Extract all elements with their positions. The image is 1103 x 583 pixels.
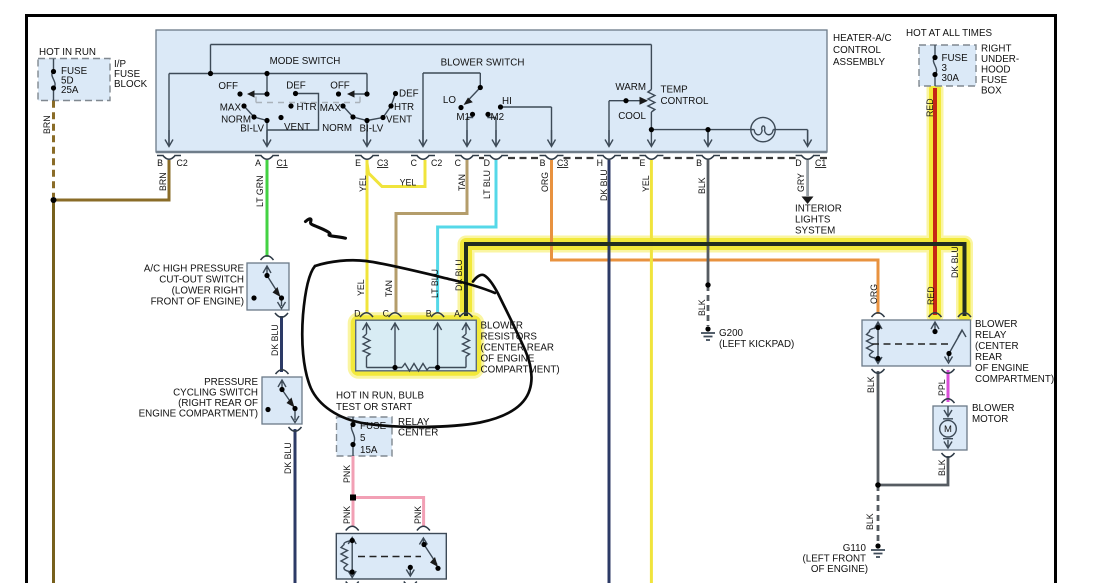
svg-text:BLK: BLK [865, 513, 875, 530]
svg-text:CONTROL: CONTROL [661, 96, 709, 107]
svg-text:G110: G110 [843, 543, 867, 554]
svg-text:DEF: DEF [286, 81, 306, 92]
svg-text:YEL: YEL [356, 279, 366, 296]
svg-text:M: M [944, 424, 952, 435]
svg-text:HOOD: HOOD [981, 65, 1010, 76]
svg-text:30A: 30A [942, 73, 960, 84]
svg-text:B: B [157, 158, 163, 168]
svg-text:E: E [355, 158, 361, 168]
svg-text:INTERIOR: INTERIOR [795, 204, 842, 215]
svg-text:FRONT OF ENGINE): FRONT OF ENGINE) [151, 297, 244, 308]
svg-text:(CENTER REAR: (CENTER REAR [481, 343, 554, 354]
svg-text:COMPARTMENT): COMPARTMENT) [975, 374, 1054, 385]
svg-text:HEATER-A/C: HEATER-A/C [833, 33, 892, 44]
svg-text:COOL: COOL [618, 111, 646, 122]
svg-text:(LEFT KICKPAD): (LEFT KICKPAD) [719, 339, 794, 350]
svg-text:M1: M1 [456, 112, 470, 123]
svg-text:C2: C2 [177, 158, 188, 168]
svg-text:C: C [411, 158, 418, 168]
svg-text:OFF: OFF [330, 81, 350, 92]
svg-text:WARM: WARM [615, 82, 646, 93]
svg-text:15A: 15A [360, 445, 378, 456]
svg-text:CUT-OUT SWITCH: CUT-OUT SWITCH [159, 275, 244, 286]
svg-text:D: D [795, 158, 801, 168]
svg-text:OFF: OFF [218, 81, 238, 92]
svg-text:BI-LV: BI-LV [240, 124, 264, 135]
svg-text:PNK: PNK [413, 506, 423, 524]
svg-text:PRESSURE: PRESSURE [204, 377, 258, 388]
svg-text:TAN: TAN [457, 174, 467, 191]
svg-text:HOT AT ALL TIMES: HOT AT ALL TIMES [906, 28, 992, 39]
svg-text:ENGINE COMPARTMENT): ENGINE COMPARTMENT) [139, 409, 258, 420]
svg-text:NORM: NORM [322, 123, 352, 134]
svg-text:REAR: REAR [975, 352, 1002, 363]
svg-text:COMPARTMENT): COMPARTMENT) [481, 365, 560, 376]
svg-text:GRY: GRY [796, 173, 806, 192]
svg-text:(RIGHT REAR OF: (RIGHT REAR OF [178, 398, 258, 409]
svg-text:C1: C1 [815, 158, 826, 168]
svg-text:MODE SWITCH: MODE SWITCH [270, 56, 341, 67]
svg-text:BLK: BLK [697, 299, 707, 316]
svg-text:DK BLU: DK BLU [283, 442, 293, 474]
svg-text:B: B [426, 309, 432, 319]
svg-text:RIGHT: RIGHT [981, 44, 1011, 55]
svg-text:B: B [540, 158, 546, 168]
svg-text:LO: LO [443, 95, 456, 106]
svg-text:BLK: BLK [937, 459, 947, 476]
svg-text:BOX: BOX [981, 86, 1002, 97]
svg-text:25A: 25A [61, 85, 79, 96]
svg-text:YEL: YEL [641, 175, 651, 192]
svg-text:TEMP: TEMP [661, 85, 689, 96]
svg-text:DK BLU: DK BLU [599, 169, 609, 201]
svg-text:HTR: HTR [394, 102, 414, 113]
svg-text:M2: M2 [491, 112, 505, 123]
svg-text:OF ENGINE: OF ENGINE [975, 363, 1029, 374]
svg-text:BLOWER SWITCH: BLOWER SWITCH [441, 58, 525, 69]
svg-text:LT BLU: LT BLU [482, 170, 492, 199]
svg-text:UNDER-: UNDER- [981, 54, 1019, 65]
svg-text:HTR: HTR [297, 102, 317, 113]
svg-text:C: C [455, 158, 462, 168]
svg-text:HOT IN RUN, BULB: HOT IN RUN, BULB [336, 391, 424, 402]
svg-text:LT BLU: LT BLU [430, 269, 440, 298]
svg-text:C: C [383, 309, 390, 319]
svg-text:(CENTER: (CENTER [975, 341, 1019, 352]
svg-text:CONTROL: CONTROL [833, 45, 881, 56]
svg-text:TEST OR START: TEST OR START [336, 402, 412, 413]
svg-text:C2: C2 [431, 158, 442, 168]
svg-text:CYCLING SWITCH: CYCLING SWITCH [173, 388, 258, 399]
svg-text:DEF: DEF [399, 89, 419, 100]
svg-text:B: B [696, 158, 702, 168]
svg-text:PNK: PNK [342, 506, 352, 524]
svg-text:CENTER: CENTER [398, 428, 438, 439]
svg-text:BRN: BRN [158, 172, 168, 191]
svg-text:PNK: PNK [342, 465, 352, 483]
svg-text:HOT IN RUN: HOT IN RUN [39, 47, 96, 58]
svg-text:DK BLU: DK BLU [454, 259, 464, 291]
svg-text:RESISTORS: RESISTORS [481, 332, 538, 343]
svg-text:RED: RED [926, 286, 936, 305]
svg-text:HI: HI [502, 96, 512, 107]
svg-text:D: D [354, 309, 360, 319]
svg-text:D: D [484, 158, 490, 168]
svg-text:YEL: YEL [400, 178, 417, 188]
svg-text:BLOCK: BLOCK [114, 79, 148, 90]
svg-text:G200: G200 [719, 328, 744, 339]
svg-text:ASSEMBLY: ASSEMBLY [833, 57, 886, 68]
svg-text:C3: C3 [557, 158, 568, 168]
svg-text:BLOWER: BLOWER [975, 319, 1017, 330]
svg-text:YEL: YEL [358, 175, 368, 192]
svg-text:BLK: BLK [866, 376, 876, 393]
svg-text:DK BLU: DK BLU [270, 324, 280, 356]
svg-text:TAN: TAN [384, 280, 394, 297]
svg-text:RELAY: RELAY [975, 330, 1007, 341]
svg-text:LT GRN: LT GRN [255, 176, 265, 207]
svg-text:A/C HIGH PRESSURE: A/C HIGH PRESSURE [144, 264, 245, 275]
svg-text:(LEFT FRONT: (LEFT FRONT [803, 554, 867, 565]
svg-text:C3: C3 [377, 158, 388, 168]
svg-text:BRN: BRN [42, 115, 52, 134]
svg-text:FUSE: FUSE [981, 75, 1008, 86]
svg-text:A: A [454, 309, 460, 319]
svg-text:VENT: VENT [386, 115, 412, 126]
svg-text:MOTOR: MOTOR [972, 414, 1008, 425]
svg-text:DK BLU: DK BLU [950, 246, 960, 278]
svg-text:(LOWER RIGHT: (LOWER RIGHT [172, 286, 244, 297]
svg-text:OF ENGINE): OF ENGINE) [811, 564, 868, 575]
svg-text:VENT: VENT [284, 122, 310, 133]
svg-text:A: A [255, 158, 261, 168]
svg-text:E: E [640, 158, 646, 168]
svg-text:PPL: PPL [937, 379, 947, 396]
svg-text:BLK: BLK [697, 177, 707, 194]
svg-text:H: H [597, 158, 603, 168]
svg-text:C1: C1 [277, 158, 288, 168]
svg-text:MAX: MAX [320, 103, 342, 114]
svg-text:SYSTEM: SYSTEM [795, 226, 835, 237]
svg-text:BI-LV: BI-LV [360, 124, 384, 135]
svg-text:ORG: ORG [869, 284, 879, 304]
svg-text:LIGHTS: LIGHTS [795, 215, 831, 226]
svg-text:RED: RED [925, 98, 935, 117]
svg-text:ORG: ORG [540, 172, 550, 192]
svg-text:MAX: MAX [220, 103, 242, 114]
svg-text:5: 5 [360, 433, 366, 444]
svg-text:BLOWER: BLOWER [972, 403, 1014, 414]
